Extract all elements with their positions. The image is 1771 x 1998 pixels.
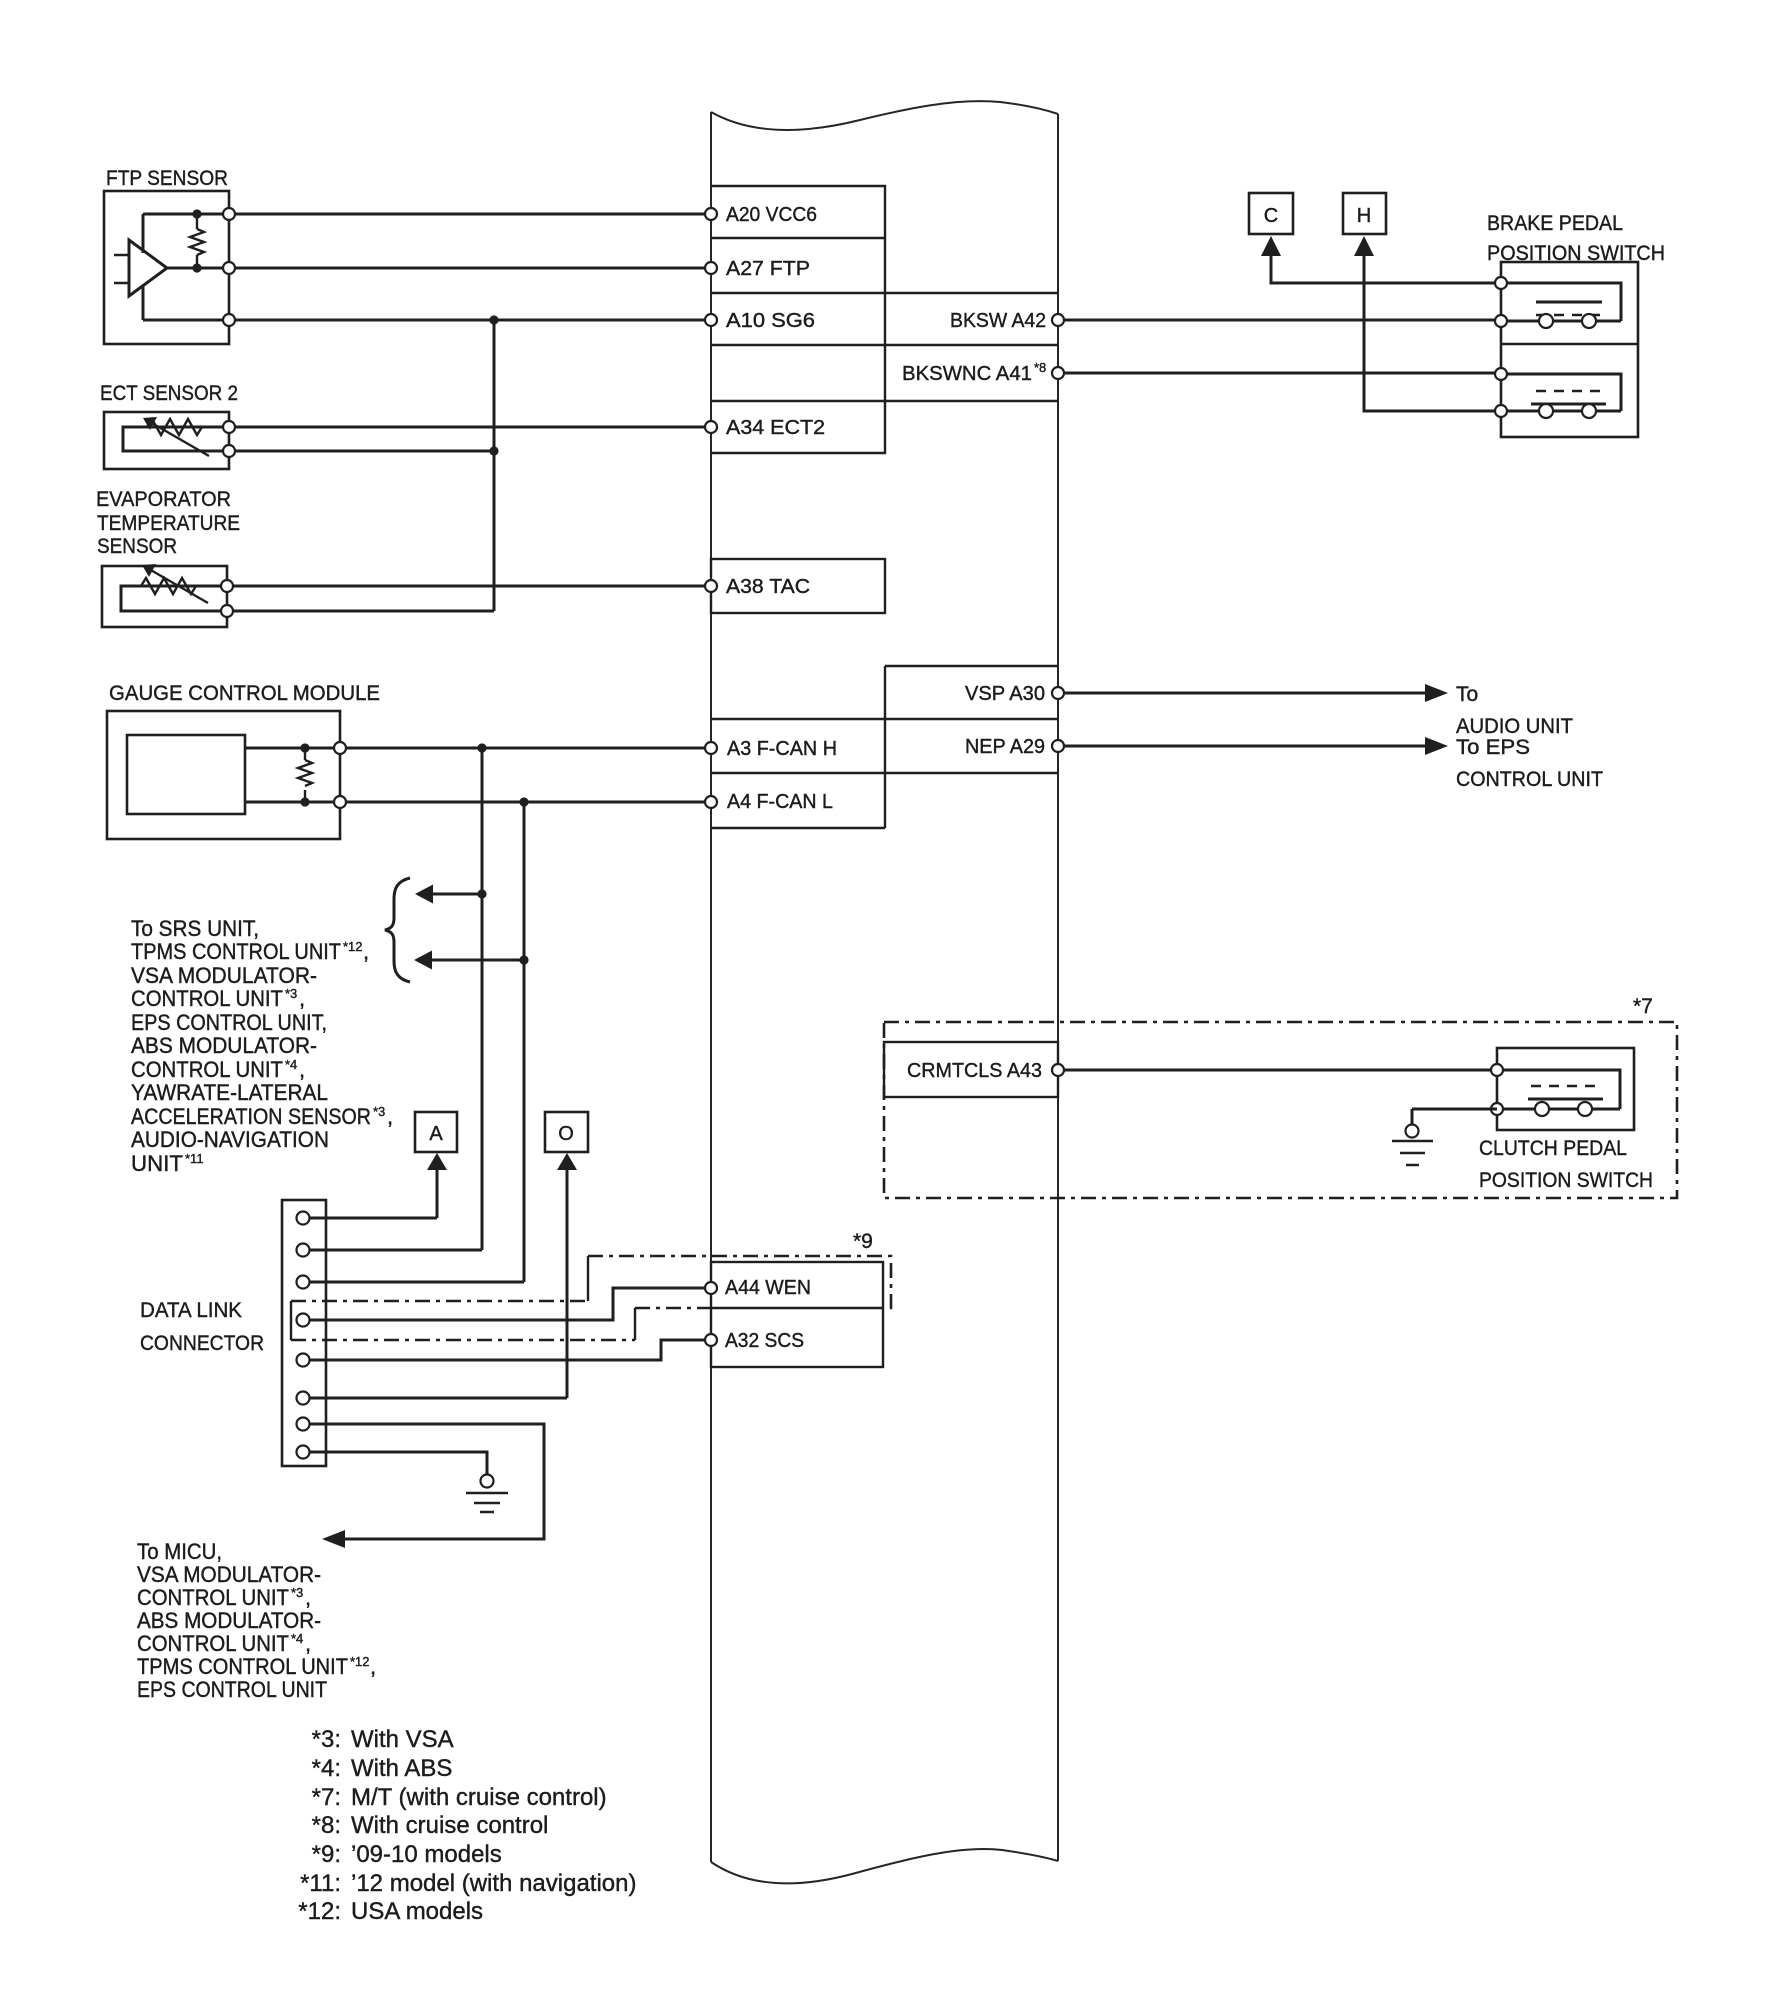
svg-text:With VSA: With VSA: [351, 1726, 454, 1753]
svg-text:POSITION SWITCH: POSITION SWITCH: [1479, 1169, 1653, 1192]
svg-text:H: H: [1357, 205, 1371, 227]
svg-text:,: ,: [387, 1104, 393, 1129]
svg-text:EPS CONTROL UNIT,: EPS CONTROL UNIT,: [131, 1010, 327, 1035]
svg-text:A38 TAC: A38 TAC: [726, 576, 810, 598]
svg-text:BKSWNC A41: BKSWNC A41: [902, 363, 1032, 385]
svg-text:ABS MODULATOR-: ABS MODULATOR-: [131, 1033, 317, 1058]
svg-text:A32 SCS: A32 SCS: [725, 1330, 804, 1352]
svg-text:A: A: [429, 1123, 443, 1145]
svg-text:,: ,: [370, 1654, 376, 1679]
svg-text:TPMS CONTROL UNIT: TPMS CONTROL UNIT: [131, 939, 341, 964]
svg-text:VSP A30: VSP A30: [965, 683, 1045, 705]
svg-text:*12: *12: [343, 939, 363, 954]
svg-text:A27 FTP: A27 FTP: [726, 258, 810, 280]
svg-text:To: To: [1456, 683, 1478, 706]
svg-text:*4: *4: [291, 1631, 303, 1646]
svg-text:*12: *12: [350, 1654, 370, 1669]
svg-text:*7:: *7:: [312, 1784, 341, 1811]
svg-text:A34 ECT2: A34 ECT2: [726, 417, 825, 439]
svg-text:YAWRATE-LATERAL: YAWRATE-LATERAL: [131, 1080, 328, 1105]
svg-text:,: ,: [299, 986, 305, 1011]
svg-text:*3: *3: [285, 986, 297, 1001]
svg-text:ECT SENSOR 2: ECT SENSOR 2: [100, 382, 238, 405]
svg-text:*3:: *3:: [312, 1726, 341, 1753]
svg-text:*9: *9: [853, 1230, 873, 1253]
svg-text:UNIT: UNIT: [131, 1151, 183, 1176]
svg-text:M/T (with cruise control): M/T (with cruise control): [351, 1784, 607, 1811]
svg-text:,: ,: [363, 939, 369, 964]
svg-text:*8:: *8:: [312, 1812, 341, 1839]
svg-text:CONTROL UNIT: CONTROL UNIT: [131, 1057, 283, 1082]
svg-text:,: ,: [299, 1057, 305, 1082]
svg-text:To EPS: To EPS: [1456, 736, 1530, 759]
svg-text:CONTROL UNIT: CONTROL UNIT: [1456, 768, 1603, 791]
svg-text:To MICU,: To MICU,: [137, 1539, 222, 1564]
svg-text:*7: *7: [1633, 995, 1653, 1018]
svg-text:,: ,: [305, 1631, 311, 1656]
svg-text:ABS MODULATOR-: ABS MODULATOR-: [137, 1608, 321, 1633]
svg-text:AUDIO UNIT: AUDIO UNIT: [1456, 715, 1573, 738]
svg-text:CONTROL UNIT: CONTROL UNIT: [137, 1585, 289, 1610]
svg-text:*11: *11: [185, 1151, 204, 1166]
svg-text:FTP SENSOR: FTP SENSOR: [106, 167, 228, 190]
svg-text:CLUTCH PEDAL: CLUTCH PEDAL: [1479, 1137, 1627, 1160]
svg-text:*4: *4: [285, 1057, 297, 1072]
svg-text:BKSW A42: BKSW A42: [950, 310, 1046, 332]
svg-text:C: C: [1264, 205, 1278, 227]
svg-text:*3: *3: [373, 1104, 385, 1119]
svg-text:With ABS: With ABS: [351, 1755, 452, 1782]
svg-text:AUDIO-NAVIGATION: AUDIO-NAVIGATION: [131, 1127, 329, 1152]
svg-text:A44 WEN: A44 WEN: [725, 1277, 811, 1299]
svg-text:*3: *3: [291, 1585, 303, 1600]
svg-text:A20 VCC6: A20 VCC6: [726, 204, 817, 226]
svg-text:*4:: *4:: [312, 1755, 341, 1782]
svg-text:To SRS UNIT,: To SRS UNIT,: [131, 916, 259, 941]
svg-text:*8: *8: [1034, 360, 1046, 375]
svg-text:DATA LINK: DATA LINK: [140, 1299, 242, 1322]
svg-text:’09-10 models: ’09-10 models: [351, 1841, 502, 1868]
svg-text:SENSOR: SENSOR: [97, 535, 177, 558]
svg-text:O: O: [558, 1123, 574, 1145]
svg-text:VSA MODULATOR-: VSA MODULATOR-: [137, 1562, 321, 1587]
svg-text:,: ,: [305, 1585, 311, 1610]
svg-text:BRAKE PEDAL: BRAKE PEDAL: [1487, 212, 1623, 235]
svg-text:A10 SG6: A10 SG6: [726, 310, 815, 332]
svg-text:*11:: *11:: [300, 1870, 341, 1897]
svg-text:NEP A29: NEP A29: [965, 736, 1045, 758]
svg-text:A4 F-CAN L: A4 F-CAN L: [727, 791, 833, 813]
svg-text:*9:: *9:: [312, 1841, 341, 1868]
svg-text:VSA MODULATOR-: VSA MODULATOR-: [131, 963, 317, 988]
svg-text:A3 F-CAN H: A3 F-CAN H: [727, 738, 837, 760]
svg-text:TEMPERATURE: TEMPERATURE: [97, 512, 240, 535]
svg-text:CONNECTOR: CONNECTOR: [140, 1332, 264, 1355]
svg-text:CONTROL UNIT: CONTROL UNIT: [137, 1631, 289, 1656]
svg-text:’12 model (with navigation): ’12 model (with navigation): [351, 1870, 636, 1897]
svg-text:CRMTCLS A43: CRMTCLS A43: [907, 1060, 1042, 1082]
svg-text:*12:: *12:: [298, 1898, 341, 1925]
svg-text:With cruise control: With cruise control: [351, 1812, 548, 1839]
svg-text:GAUGE CONTROL MODULE: GAUGE CONTROL MODULE: [109, 682, 380, 705]
svg-text:CONTROL UNIT: CONTROL UNIT: [131, 986, 283, 1011]
svg-text:EPS CONTROL UNIT: EPS CONTROL UNIT: [137, 1677, 327, 1702]
svg-text:EVAPORATOR: EVAPORATOR: [96, 488, 231, 511]
svg-text:ACCELERATION SENSOR: ACCELERATION SENSOR: [131, 1104, 371, 1129]
svg-text:USA models: USA models: [351, 1898, 483, 1925]
svg-text:TPMS CONTROL UNIT: TPMS CONTROL UNIT: [137, 1654, 348, 1679]
